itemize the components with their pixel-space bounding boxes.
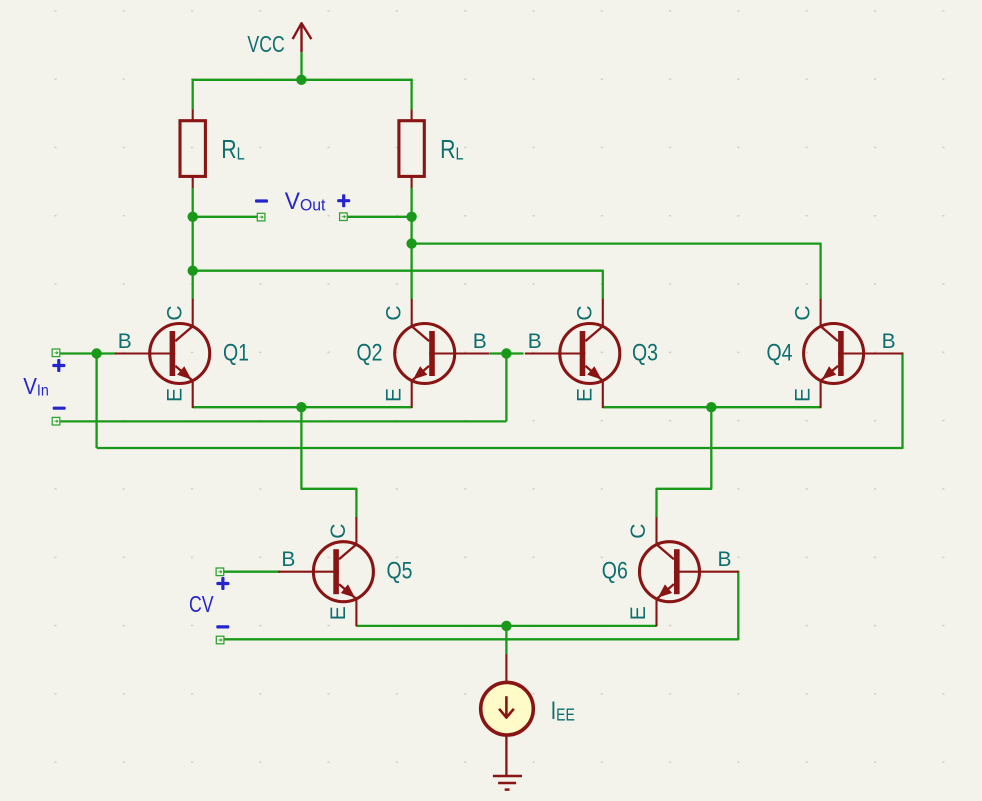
- pin square VIn plus: [52, 349, 60, 357]
- junction VCC top bus: [296, 75, 306, 85]
- svg-text:Q6: Q6: [602, 558, 628, 585]
- svg-text:B: B: [882, 330, 896, 353]
- transistor Q3: [525, 299, 658, 408]
- transistor Q5: [278, 517, 412, 626]
- transistor Q4: [767, 299, 903, 408]
- wire to Q3 collector: [193, 271, 603, 300]
- junction Vout plus node: [406, 212, 416, 222]
- svg-text:Q1: Q1: [223, 339, 249, 366]
- junction Q1 Q2 emitter node: [296, 402, 306, 412]
- resistor RL right: [399, 110, 464, 188]
- ground: [493, 776, 522, 790]
- svg-text:E: E: [791, 388, 814, 402]
- wire Q1 Q2 emitter bus: [193, 406, 412, 408]
- label Vout with polarity: [255, 188, 350, 215]
- junction VIn plus node: [91, 348, 101, 358]
- svg-text:C: C: [791, 305, 814, 320]
- svg-text:C: C: [627, 524, 650, 539]
- svg-text:C: C: [163, 305, 186, 320]
- svg-text:B: B: [281, 548, 295, 571]
- svg-text:E: E: [163, 388, 186, 402]
- junction Q3 Q4 emitter node: [706, 402, 716, 412]
- svg-text:Q5: Q5: [387, 558, 413, 585]
- pin square Vout minus: [257, 213, 265, 221]
- wire left resistor bottom to Q1 collector: [192, 188, 194, 300]
- svg-text:E: E: [382, 388, 405, 402]
- wire emitter bus to IEE: [505, 626, 507, 655]
- wire right resistor top: [410, 79, 412, 110]
- wire top bus: [192, 79, 413, 81]
- junction Q3 collector tap: [188, 266, 198, 276]
- pin square CV minus: [216, 636, 224, 644]
- svg-text:E: E: [327, 606, 350, 620]
- junction Q5 Q6 emitter node: [501, 621, 511, 631]
- svg-text:C: C: [327, 524, 350, 539]
- wire VIn plus to Q1 base: [60, 352, 117, 354]
- svg-text:B: B: [118, 330, 132, 353]
- wire VIn plus riser: [95, 354, 97, 449]
- current source IEE: [481, 654, 575, 775]
- svg-text:B: B: [473, 330, 487, 353]
- transistor Q6: [602, 517, 739, 626]
- wire left resistor top: [192, 79, 194, 110]
- wire Q2 Q3 base link: [490, 352, 524, 354]
- svg-text:B: B: [528, 330, 542, 353]
- pin square CV plus: [216, 568, 224, 576]
- svg-text:Q3: Q3: [632, 339, 658, 366]
- wire right resistor bottom to Q2 collector: [410, 188, 412, 300]
- svg-text:E: E: [627, 606, 650, 620]
- wire long bottom bus to Q4 base: [97, 352, 903, 448]
- wire Q5 Q6 emitter bus: [356, 625, 656, 627]
- pin square VIn minus: [52, 417, 60, 425]
- svg-text:B: B: [717, 548, 731, 571]
- svg-text:E: E: [574, 388, 597, 402]
- svg-text:VCC: VCC: [247, 31, 284, 57]
- label VIn with polarity: [23, 359, 65, 410]
- wire node riser to Q2 Q3 base junction: [505, 354, 507, 422]
- svg-text:C: C: [574, 305, 597, 320]
- svg-text:Q4: Q4: [767, 339, 793, 366]
- resistor RL left: [180, 110, 245, 188]
- wire Q3 Q4 emitter bus: [603, 406, 821, 408]
- wire to Q4 collector: [412, 244, 821, 300]
- svg-text:Q2: Q2: [357, 339, 383, 366]
- svg-text:C: C: [382, 305, 405, 320]
- junction Vout minus node: [188, 212, 198, 222]
- transistor Q2: [357, 299, 490, 408]
- junction Q2 Q3 base node: [501, 348, 511, 358]
- wire emitter bus down to Q6 collector: [657, 407, 712, 518]
- transistor Q1: [115, 299, 249, 408]
- wire Vout minus stub: [193, 216, 258, 218]
- power symbol VCC: [247, 23, 311, 57]
- svg-text:CV: CV: [189, 591, 214, 617]
- pin square Vout plus: [340, 213, 348, 221]
- wire CV plus to Q5 base: [223, 571, 280, 573]
- wire emitter bus down to Q5 collector: [301, 407, 356, 518]
- wire VIn minus to node: [60, 420, 507, 422]
- label CV with polarity: [189, 577, 229, 629]
- wire VCC stem: [300, 52, 302, 81]
- junction Q4 collector tap: [406, 238, 416, 248]
- wire Vout plus stub: [348, 216, 412, 218]
- wire CV minus bus: [223, 571, 738, 640]
